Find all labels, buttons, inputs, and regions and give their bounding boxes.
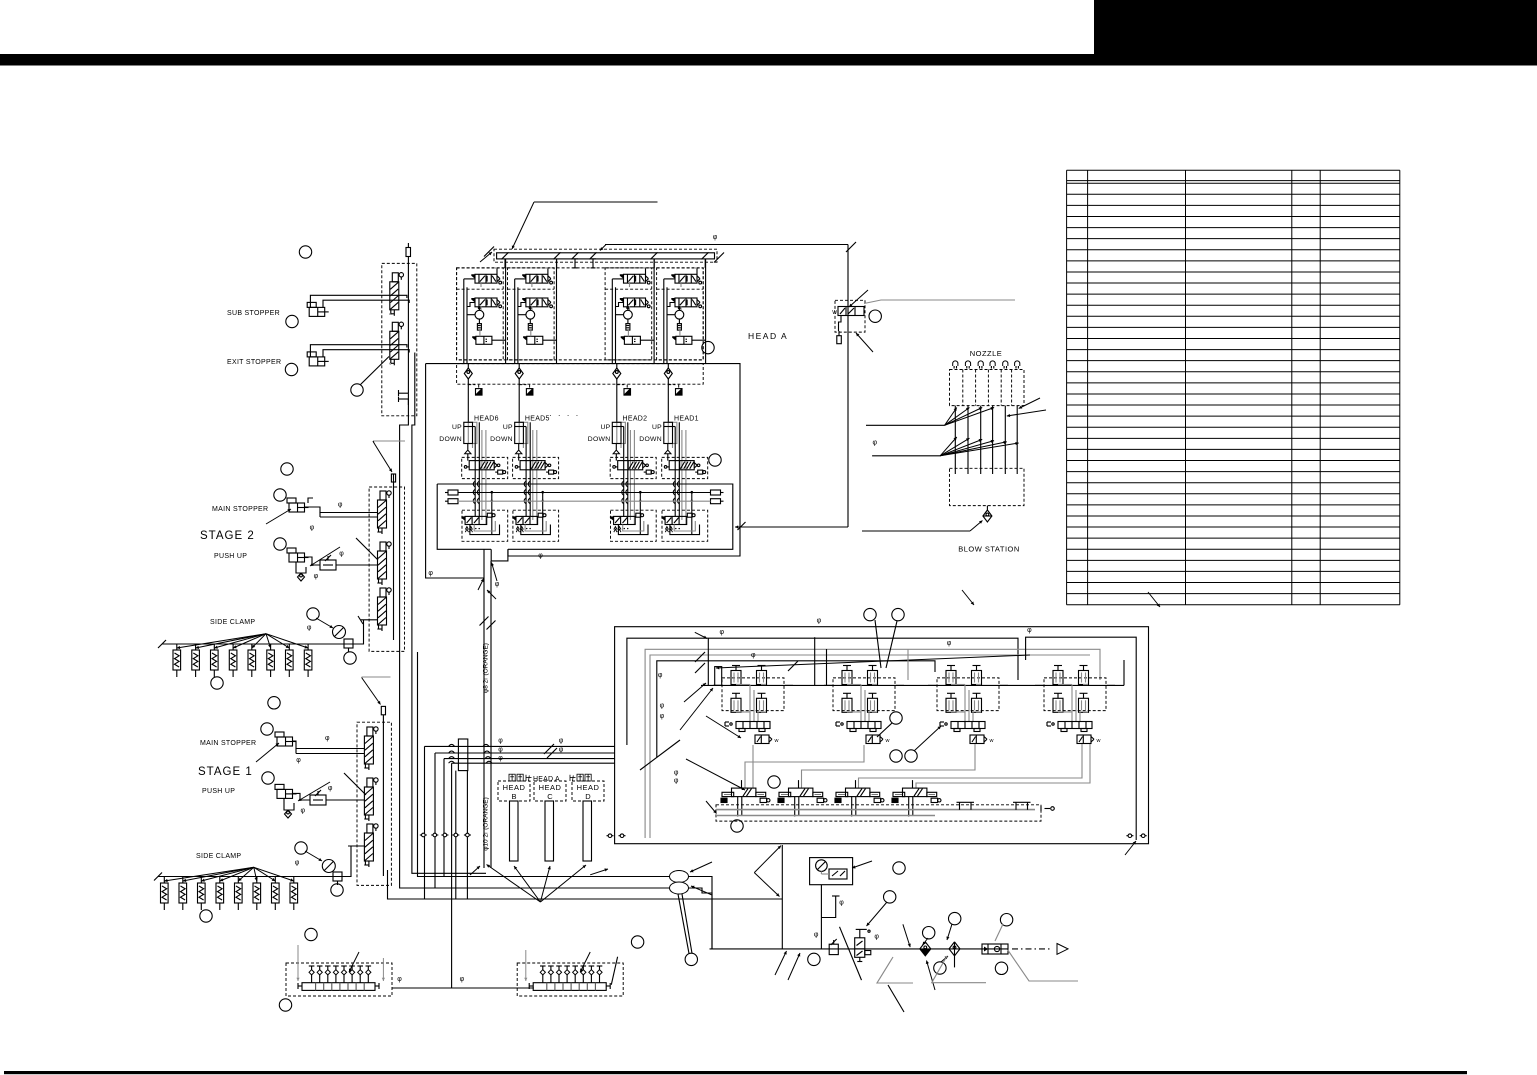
solenoid valve G2a xyxy=(522,274,526,279)
balloon manifold xyxy=(731,820,743,832)
svg-text:HEAD6: HEAD6 xyxy=(474,416,499,423)
cylinder HEAD2 xyxy=(617,422,626,443)
svg-text:DOWN: DOWN xyxy=(490,436,513,443)
svg-text:SUB STOPPER: SUB STOPPER xyxy=(227,310,280,317)
solenoid valve G3c xyxy=(621,336,625,341)
pilot valve HEAD1 (dashed) xyxy=(662,457,708,478)
bus connector left 1 xyxy=(448,490,458,495)
wire exit stopper pipes xyxy=(310,345,407,357)
balloon s2-4 xyxy=(307,608,319,620)
leader arrows top xyxy=(962,590,974,605)
stage2 valve manifold (dashed) xyxy=(369,487,404,651)
valve SV1 (sub stopper) xyxy=(390,282,399,310)
squiggle riser crossings xyxy=(449,744,455,746)
solenoid valve G1a xyxy=(471,274,475,279)
balloon mufflers xyxy=(685,953,697,965)
cylinder HEAD6 xyxy=(468,422,477,443)
cylinder HEAD5 xyxy=(519,422,528,443)
nozzle 3 xyxy=(978,361,983,366)
feed drop x708 xyxy=(695,632,707,638)
svg-text:HEAD: HEAD xyxy=(539,783,562,792)
wire right drop from head A xyxy=(847,245,849,528)
nozzle lower feed xyxy=(872,455,940,457)
check diamond HEAD2 xyxy=(613,368,621,379)
svg-text:DOWN: DOWN xyxy=(439,436,462,443)
solenoid valve G1c xyxy=(472,336,476,341)
cylinder main stopper s2 xyxy=(289,503,305,512)
svg-text:STAGE 1: STAGE 1 xyxy=(198,766,253,778)
manifold end slash left xyxy=(484,247,494,257)
balloon hatched row right xyxy=(709,454,721,466)
hatched valve row xyxy=(732,788,756,797)
wire group G2 risers xyxy=(514,279,516,364)
wire vertical small x395 xyxy=(393,474,395,482)
parts list table xyxy=(1067,170,1400,605)
wire riser A below box xyxy=(400,399,670,888)
svg-text:φ: φ xyxy=(559,738,564,745)
cylinder HEAD1 xyxy=(668,422,677,443)
svg-text:φ: φ xyxy=(314,573,319,580)
balloon cl top 2 xyxy=(892,608,904,620)
slash right corner xyxy=(846,242,856,252)
coupler row xyxy=(420,834,427,836)
filter G1 xyxy=(477,324,481,331)
check valve diamond xyxy=(920,942,931,956)
balloon s2-2 xyxy=(274,489,286,501)
shutoff valve xyxy=(855,938,865,958)
svg-text:φ: φ xyxy=(296,757,301,764)
cylinder push up s2 xyxy=(289,553,305,562)
leader to balloon 4 xyxy=(360,357,389,386)
cylinder exit stopper xyxy=(309,357,325,366)
fan side clamp s2 xyxy=(177,634,266,648)
svg-text:UP: UP xyxy=(452,424,462,431)
svg-text:φ: φ xyxy=(674,770,679,777)
svg-text:φ: φ xyxy=(495,581,500,588)
balloon s2-5 xyxy=(344,652,356,664)
svg-text:w: w xyxy=(774,738,779,744)
wire riser F xyxy=(451,763,453,988)
svg-text:UP: UP xyxy=(600,424,610,431)
valve group G2 (dashed) xyxy=(508,268,555,360)
balloon s1-3 xyxy=(262,772,274,784)
hatched valve HEAD1 xyxy=(669,461,694,470)
nozzle 4 xyxy=(990,361,995,366)
balloon bottom center xyxy=(631,936,643,948)
bus connector right 1 xyxy=(711,490,721,495)
svg-text:HEAD A: HEAD A xyxy=(533,776,560,783)
wire to bus box xyxy=(735,526,848,528)
wire sub stopper pipes xyxy=(310,295,407,307)
gauge box valve xyxy=(829,869,847,879)
cylinder cluster 4 xyxy=(1044,678,1106,711)
balloon head A right xyxy=(702,341,714,353)
HEAD C box (dashed) xyxy=(534,781,566,801)
svg-text:D: D xyxy=(585,792,591,801)
solenoid valve G3b xyxy=(620,298,624,303)
svg-text:φ: φ xyxy=(339,550,344,557)
squiggles HEAD1 xyxy=(673,481,675,487)
stage1 valve V2 xyxy=(364,787,373,815)
pilot valve HEAD6 (dashed) xyxy=(462,457,508,478)
test port branch xyxy=(821,896,835,918)
junction dots HEAD1 xyxy=(691,491,694,494)
svg-text:φ: φ xyxy=(295,859,300,866)
flow control HEAD6 xyxy=(476,389,483,396)
stage1 valve V3 xyxy=(364,833,373,861)
stage2 inlet fitting xyxy=(391,474,395,482)
balloon cl pair 1 xyxy=(890,750,902,762)
gray return lines xyxy=(802,744,976,788)
svg-text:φ8 2г (ORANGE): φ8 2г (ORANGE) xyxy=(483,643,490,693)
balloon p3 xyxy=(808,953,820,965)
HEAD D tube xyxy=(583,801,592,861)
stage valve station box xyxy=(615,627,1149,844)
wire 5/2 HEAD2 drains xyxy=(614,527,617,533)
side clamp bus s2 xyxy=(162,643,340,645)
pilot valve HEAD5 (dashed) xyxy=(513,457,559,478)
solenoid valve G3a xyxy=(620,274,624,279)
wire 5/2 HEAD1 drains xyxy=(665,527,668,533)
svg-text:φ: φ xyxy=(751,652,756,659)
squiggles HEAD6 xyxy=(473,481,475,487)
svg-text:φ: φ xyxy=(674,778,679,785)
balloon s2-6 xyxy=(211,677,223,689)
balloon s1-4 xyxy=(295,842,307,854)
svg-text:φ: φ xyxy=(328,785,333,792)
squiggles HEAD5 xyxy=(524,481,526,487)
air line dash-dot xyxy=(1012,948,1052,950)
svg-text:SIDE CLAMP: SIDE CLAMP xyxy=(210,619,255,626)
balloon cl top 1 xyxy=(864,608,876,620)
stage2 valve V2 xyxy=(378,551,387,579)
svg-text:w: w xyxy=(989,738,994,744)
manifold left (dashed) xyxy=(286,963,392,996)
manifold T fittings xyxy=(959,802,961,810)
filter G4 xyxy=(677,324,681,331)
hatched valve HEAD6 xyxy=(469,461,494,470)
svg-text:φ: φ xyxy=(428,570,433,577)
solenoid valve G4b xyxy=(671,298,675,303)
side clamp bus s1 xyxy=(158,876,327,878)
fan side clamp s1 xyxy=(164,867,254,881)
svg-text:HEAD A: HEAD A xyxy=(748,331,788,341)
gauge circle xyxy=(816,860,828,872)
svg-text:φ: φ xyxy=(498,738,503,745)
5/2 valve HEAD5 body xyxy=(512,516,516,521)
inner feed path 2 (gray) xyxy=(645,649,1100,838)
svg-text:φ: φ xyxy=(874,933,879,940)
svg-text:w: w xyxy=(1096,738,1101,744)
manifold left feeds xyxy=(297,945,299,981)
wire push up s1 xyxy=(292,793,310,800)
svg-text:HEAD1: HEAD1 xyxy=(674,416,699,423)
inner drop wires xyxy=(814,637,816,685)
balloon branch valve xyxy=(869,310,881,322)
svg-text:EXIT STOPPER: EXIT STOPPER xyxy=(227,359,281,366)
wire main riser in stopper box xyxy=(407,257,409,394)
svg-text:φ: φ xyxy=(301,807,306,814)
svg-text:φ: φ xyxy=(814,931,819,938)
leader line phi8 xyxy=(605,244,848,246)
svg-text:UP: UP xyxy=(503,424,513,431)
hatched valve HEAD2 xyxy=(618,461,643,470)
balloon s2-1 xyxy=(281,463,293,475)
svg-text:STAGE 2: STAGE 2 xyxy=(200,530,255,542)
wire drop x782 xyxy=(781,845,783,949)
gray leaders bottom xyxy=(932,956,986,983)
orange riser pair xyxy=(483,549,485,868)
flow control HEAD2 xyxy=(624,389,631,396)
bus box xyxy=(437,484,491,549)
inner feed path 1 xyxy=(627,638,1018,745)
wire main stopper s2 xyxy=(304,507,378,513)
balloon s1-2 xyxy=(261,723,273,735)
manifold end fitting xyxy=(1045,808,1051,810)
nozzle 1 xyxy=(953,361,958,366)
svg-text:φ: φ xyxy=(660,702,665,709)
check diamond HEAD1 xyxy=(664,368,672,379)
cylinder cluster 3 xyxy=(937,678,999,711)
squiggles HEAD2 xyxy=(622,481,624,487)
hatched valve HEAD5 xyxy=(520,461,545,470)
svg-text:· · · ·: · · · · xyxy=(549,411,580,420)
fitting below branch valve xyxy=(837,336,842,344)
muffler arrows xyxy=(690,862,712,872)
svg-text:φ: φ xyxy=(498,746,503,753)
junction dots HEAD5 xyxy=(541,491,544,494)
svg-text:BLOW STATION: BLOW STATION xyxy=(958,545,1020,554)
balloon p1 xyxy=(893,862,905,874)
leader to stage2 box xyxy=(373,441,374,443)
air manifold bar xyxy=(494,249,717,262)
lubricator xyxy=(982,944,1008,954)
bus line 3 xyxy=(444,758,615,760)
valve group G3 (dashed) xyxy=(605,268,652,360)
svg-text:φ: φ xyxy=(310,524,315,531)
junction block xyxy=(458,739,467,771)
HEAD B tube xyxy=(510,801,519,861)
wire side clamp feed s2 xyxy=(361,619,378,621)
5/2 valve HEAD6 body xyxy=(461,516,465,521)
svg-text:NOZZLE: NOZZLE xyxy=(970,349,1003,358)
svg-text:B: B xyxy=(511,792,516,801)
HEAD D box (dashed) xyxy=(572,781,604,801)
svg-text:MAIN STOPPER: MAIN STOPPER xyxy=(212,506,268,513)
wire group G3 risers xyxy=(611,279,613,364)
stage1 valve V1 xyxy=(364,736,373,764)
pilot valve HEAD2 (dashed) xyxy=(610,457,656,478)
wire cylinder HEAD5 to valve xyxy=(518,454,520,461)
balloon s1-1 xyxy=(268,697,280,709)
head A enclosure box xyxy=(426,364,740,556)
solenoid valve G4a xyxy=(671,274,675,279)
bus connector left 2 xyxy=(448,499,458,504)
exhaust fitting bottom xyxy=(399,392,409,394)
bus line 4 xyxy=(452,762,615,764)
balloon s2-3 xyxy=(274,538,286,550)
svg-text:C: C xyxy=(547,792,553,801)
balloon p7 xyxy=(1000,914,1012,926)
check diamond HEAD6 xyxy=(464,368,472,379)
svg-text:SIDE CLAMP: SIDE CLAMP xyxy=(196,853,241,860)
wire riser E xyxy=(443,759,445,877)
long manifold lines xyxy=(716,809,1035,811)
solenoid valve G4c xyxy=(672,336,676,341)
svg-text:φ: φ xyxy=(817,618,822,625)
regulator gauge G2 xyxy=(526,310,535,319)
wire push up s2 xyxy=(304,557,320,565)
svg-text:PUSH UP: PUSH UP xyxy=(202,788,235,795)
HEAD C tube xyxy=(545,801,554,861)
svg-text:HEAD2: HEAD2 xyxy=(623,416,648,423)
gauge box xyxy=(810,858,853,885)
manifold feed drops xyxy=(505,259,507,364)
wire 5/2 HEAD5 drains xyxy=(516,527,519,533)
header title block (black) xyxy=(1094,0,1537,66)
regulator s1 xyxy=(333,872,342,881)
balloon 3 xyxy=(285,363,297,375)
wire group G4 risers xyxy=(663,279,665,364)
svg-text:DOWN: DOWN xyxy=(588,436,611,443)
muffler ellipse 1 xyxy=(670,871,689,883)
balloon cl pair 2 xyxy=(905,750,917,762)
svg-text:MAIN STOPPER: MAIN STOPPER xyxy=(200,740,256,747)
balloon p6 xyxy=(934,962,946,974)
regulator gauge G1 xyxy=(475,310,484,319)
regulator gauge G3 xyxy=(624,310,633,319)
nozzle 6 xyxy=(1015,361,1020,366)
manifold T plug 1 xyxy=(574,259,576,268)
blow station dashed box xyxy=(950,468,1025,505)
wire cylinder HEAD6 to valve xyxy=(467,454,469,461)
nozzle 2 xyxy=(965,361,970,366)
balloon cluster1 low xyxy=(768,776,780,788)
5/2 valve HEAD6 (dashed) xyxy=(462,510,508,541)
blow station check valve xyxy=(983,510,992,522)
nozzle 5 xyxy=(1003,361,1008,366)
muffler ellipse 2 xyxy=(670,882,689,894)
cylinder push up s1 xyxy=(277,789,293,798)
speed controller s1 xyxy=(310,795,326,805)
main air line xyxy=(710,948,1009,950)
wire branch valve drop xyxy=(839,316,842,332)
filter G3 xyxy=(626,324,630,331)
balloon s1-7 xyxy=(305,928,317,940)
nozzle dashed strips xyxy=(950,370,1025,406)
wire riser B below box xyxy=(412,353,486,874)
speed controller s2 xyxy=(320,560,336,570)
valve group G4 (dashed) xyxy=(657,268,704,360)
leader line top xyxy=(534,201,658,203)
wire gauge drop xyxy=(820,885,822,949)
wire manifold link xyxy=(392,987,534,989)
wire stub left xyxy=(388,870,425,899)
wire 5/2 HEAD6 drains xyxy=(465,527,468,533)
stage1 leader gray xyxy=(362,676,391,678)
stage1 inlet fitting xyxy=(381,706,385,714)
flow control HEAD1 xyxy=(676,389,683,396)
regulator s2 xyxy=(344,639,353,648)
label piping note (kanji doodles + HEAD A) xyxy=(509,774,515,781)
wire riser G xyxy=(418,652,671,877)
check diamond HEAD5 xyxy=(515,368,523,379)
wire cylinder HEAD2 to valve xyxy=(615,454,617,461)
side clamp cylinders s2 xyxy=(173,650,181,670)
solenoid valve G1b xyxy=(471,298,475,303)
wire riser D xyxy=(434,753,436,888)
stage2 valve V1 xyxy=(378,500,387,528)
manifold T plug 2 xyxy=(592,259,594,268)
bus connector right 2 xyxy=(711,499,721,504)
leader slashes on line xyxy=(775,951,787,975)
gray line to nozzle xyxy=(864,300,1015,304)
regulator gauge G4 xyxy=(675,310,684,319)
cluster connectors xyxy=(701,684,1124,686)
leader arrows at branch valve xyxy=(849,290,868,307)
junction dots HEAD6 xyxy=(491,491,494,494)
svg-text:φ: φ xyxy=(947,640,952,647)
branch valve (dashed) xyxy=(835,300,865,332)
balloon 1 xyxy=(299,246,311,258)
filter diamond xyxy=(949,942,960,956)
valve group G1 (dashed) xyxy=(457,268,504,360)
flow control HEAD5 xyxy=(526,389,533,396)
nozzle tubes xyxy=(954,406,956,474)
coupler pair bottom right xyxy=(1126,835,1133,837)
wire group G1 risers xyxy=(463,279,465,364)
svg-text:UP: UP xyxy=(652,424,662,431)
cylinder cluster 1 xyxy=(722,678,784,711)
cylinder sub stopper xyxy=(309,307,325,316)
svg-text:φ10 2г (ORANGE): φ10 2г (ORANGE) xyxy=(483,797,490,851)
balloon p5 xyxy=(949,912,961,924)
svg-text:PUSH UP: PUSH UP xyxy=(214,553,247,560)
svg-text:DOWN: DOWN xyxy=(639,436,662,443)
valve SV2 (exit stopper) xyxy=(390,331,399,359)
inner feed path 3 xyxy=(657,661,935,757)
svg-text:HEAD5: HEAD5 xyxy=(525,416,550,423)
inner right box xyxy=(1026,637,1137,840)
5/2 valve HEAD1 (dashed) xyxy=(662,510,708,541)
balloon s1-8 xyxy=(279,999,291,1011)
gauge circle s1 xyxy=(322,860,335,873)
gauge circle s2 xyxy=(333,626,346,639)
cylinder cluster 2 xyxy=(833,678,895,711)
5/2 valve HEAD1 body xyxy=(661,516,665,521)
svg-text:HEAD: HEAD xyxy=(503,783,526,792)
fitting top xyxy=(406,248,411,257)
fan to head tubes xyxy=(487,865,541,903)
svg-text:W: W xyxy=(832,310,837,316)
wire main stopper s1 xyxy=(292,741,364,749)
svg-text:φ: φ xyxy=(498,755,503,762)
big dashed enclosure head A valves xyxy=(457,268,704,360)
svg-text:φ: φ xyxy=(538,553,543,560)
lower dashed region under valves xyxy=(457,364,704,385)
header rule bar xyxy=(0,54,1537,66)
svg-text:φ: φ xyxy=(873,439,878,446)
balloon s1-5 xyxy=(331,884,343,896)
supply triangle xyxy=(1057,944,1068,955)
junction dots HEAD2 xyxy=(639,491,642,494)
HEAD B box (dashed) xyxy=(498,781,530,801)
manifold right (dashed) xyxy=(517,963,623,996)
svg-text:φ: φ xyxy=(658,672,663,679)
balloon s1-6 xyxy=(200,910,212,922)
solenoid valve G2b xyxy=(522,298,526,303)
balloon cl mid xyxy=(890,712,902,724)
